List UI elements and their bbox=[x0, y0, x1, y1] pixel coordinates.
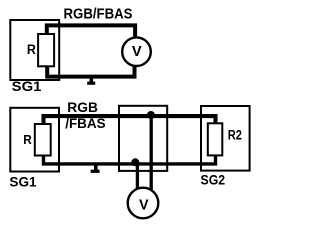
svg-text:RGB: RGB bbox=[67, 100, 98, 115]
svg-text:SG1: SG1 bbox=[9, 173, 36, 189]
svg-text:R: R bbox=[23, 132, 32, 147]
junction dot on bottom wire bbox=[131, 158, 139, 166]
signal generator box SG1 bbox=[10, 20, 59, 80]
svg-text:SG1: SG1 bbox=[12, 78, 42, 94]
resistor R (bottom) bbox=[35, 124, 51, 156]
resistor R bbox=[38, 34, 54, 66]
cable box (middle) bbox=[119, 106, 167, 171]
wire bottom (R bottom to R2 bottom) bbox=[44, 155, 216, 164]
ground bbox=[90, 78, 94, 82]
wire top (R top to R2 top) bbox=[44, 116, 216, 124]
svg-text:SG2: SG2 bbox=[201, 172, 226, 188]
terminator box SG2 bbox=[201, 106, 250, 171]
voltmeter U1 bbox=[122, 37, 151, 66]
wire voltmeter lead left bbox=[136, 164, 139, 189]
resistor R2 bbox=[208, 123, 223, 155]
svg-text:V: V bbox=[139, 196, 148, 213]
svg-text:RGB/FBAS: RGB/FBAS bbox=[64, 7, 133, 23]
wire top (R top to voltmeter top) bbox=[47, 25, 135, 37]
svg-text:/FBAS: /FBAS bbox=[65, 116, 106, 131]
wire bottom (R bottom to voltmeter bottom) bbox=[47, 66, 134, 77]
signal generator box SG1 (bottom) bbox=[10, 108, 59, 172]
voltmeter U2 bbox=[128, 188, 159, 219]
junction dot on top wire bbox=[147, 111, 155, 119]
svg-text:R: R bbox=[27, 42, 36, 58]
svg-text:R2: R2 bbox=[228, 127, 242, 142]
svg-text:V: V bbox=[132, 43, 142, 60]
ground (bottom) bbox=[94, 165, 98, 171]
wire voltmeter lead right bbox=[150, 117, 153, 190]
